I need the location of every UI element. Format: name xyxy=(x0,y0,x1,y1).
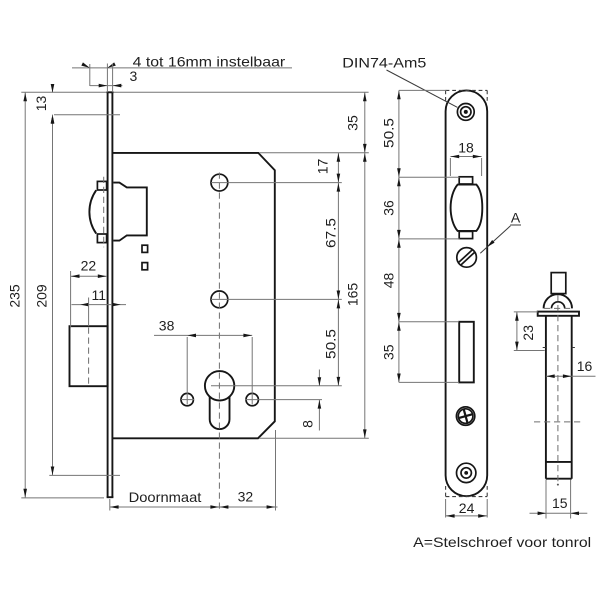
top screw xyxy=(457,104,474,121)
lower screw hole xyxy=(211,291,228,308)
svg-text:165: 165 xyxy=(344,283,360,307)
svg-text:23: 23 xyxy=(520,325,536,341)
ext case right xyxy=(275,430,277,511)
svg-text:3: 3 xyxy=(130,68,138,84)
plate ext lines xyxy=(399,89,447,91)
dim 15 xyxy=(545,480,547,519)
dim 22 xyxy=(71,275,107,277)
top edge line xyxy=(21,91,368,93)
svg-text:35: 35 xyxy=(344,115,360,131)
dim 209 xyxy=(52,115,54,476)
horizontal centerline dash-dot xyxy=(534,421,584,423)
flange xyxy=(538,312,579,316)
svg-text:A: A xyxy=(511,210,521,226)
roller oval xyxy=(451,185,483,231)
plate dim column x=398.9 xyxy=(398,90,400,382)
dim 16 xyxy=(546,375,596,377)
barrel bottom xyxy=(546,478,572,480)
cylinder center tick xyxy=(211,385,342,387)
roller tab top xyxy=(97,181,106,190)
faceplate strip bottom cap xyxy=(107,496,114,498)
deadbolt slot xyxy=(459,322,474,383)
roller hidden dashed line xyxy=(103,177,105,247)
screw dome xyxy=(544,294,572,308)
deadbolt xyxy=(70,326,108,386)
dim 13 xyxy=(52,84,54,92)
bottom screw xyxy=(457,463,476,482)
faceplate strip top cap xyxy=(107,91,114,93)
ext case bottom right xyxy=(259,437,369,439)
mount hole tick right / ext xyxy=(246,399,323,401)
leader A xyxy=(480,226,510,254)
ext plate bottom xyxy=(109,499,111,511)
vertical dashed centerline through holes/cylinder xyxy=(218,173,220,511)
ext line x=70.9 xyxy=(70,271,72,327)
dim column x=364.8 (35 / 165) xyxy=(364,92,366,438)
svg-text:38: 38 xyxy=(159,318,175,334)
svg-text:4 tot 16mm instelbaar: 4 tot 16mm instelbaar xyxy=(133,53,286,69)
svg-text:17: 17 xyxy=(314,159,330,175)
dome base dashed xyxy=(544,307,572,309)
ext line y=498 xyxy=(21,497,104,499)
svg-text:22: 22 xyxy=(81,258,97,274)
faceplate side strip back edge xyxy=(111,92,113,497)
dim 235 xyxy=(24,92,26,497)
hole tick upper xyxy=(211,182,342,184)
ext lines to mount holes xyxy=(186,337,188,405)
euro cylinder body xyxy=(210,397,230,430)
hole tick lower xyxy=(211,298,342,300)
leader DIN74 xyxy=(387,70,458,107)
ext line y=114.7 xyxy=(54,114,120,116)
svg-text:50.5: 50.5 xyxy=(381,118,397,148)
dim 4tot16 line xyxy=(72,67,292,69)
svg-text:36: 36 xyxy=(381,200,397,216)
small square hole lower xyxy=(142,263,148,270)
plate ext lines above xyxy=(106,64,108,93)
phillips screw xyxy=(456,407,474,425)
deadbolt dashed center xyxy=(88,328,90,386)
ext line x=88.6 xyxy=(88,298,90,327)
roller bulge arc xyxy=(89,190,96,233)
roller tab bottom xyxy=(97,234,106,243)
svg-text:13: 13 xyxy=(33,96,49,112)
svg-text:Doornmaat: Doornmaat xyxy=(129,489,202,505)
mount hole tick left xyxy=(181,399,194,401)
svg-text:8: 8 xyxy=(300,420,316,428)
ext case top right xyxy=(260,152,369,154)
dim column x=338.4 (17 / 67.5 / 50.5) xyxy=(337,153,339,386)
euro cylinder circle xyxy=(205,371,234,400)
dim 23 xyxy=(514,311,538,313)
svg-text:18: 18 xyxy=(458,140,474,156)
roller tab top (front) xyxy=(459,177,472,184)
svg-text:16: 16 xyxy=(577,358,593,374)
adjust screw A xyxy=(457,248,477,268)
dim 38 xyxy=(154,334,252,336)
faceplate side strip front edge xyxy=(107,92,109,497)
screw slot lines xyxy=(459,249,473,262)
dim 11 xyxy=(72,304,127,306)
svg-text:67.5: 67.5 xyxy=(322,218,338,248)
side ticks xyxy=(543,347,546,349)
upper screw hole xyxy=(211,174,228,191)
faceplate outline xyxy=(446,90,488,496)
svg-text:32: 32 xyxy=(238,489,254,505)
svg-text:50.5: 50.5 xyxy=(322,329,338,359)
dim 24 xyxy=(445,499,447,518)
small square hole upper xyxy=(142,245,148,252)
vertical centerline xyxy=(557,295,559,481)
svg-text:48: 48 xyxy=(381,273,397,289)
dashed square corners bottom xyxy=(446,496,488,498)
svg-text:235: 235 xyxy=(7,284,23,308)
cylinder mount hole left xyxy=(181,393,193,405)
svg-text:15: 15 xyxy=(552,495,568,511)
inner dome xyxy=(551,302,564,309)
svg-text:11: 11 xyxy=(92,287,107,303)
roller tab bottom (front) xyxy=(459,231,472,238)
ext line y=475.5 xyxy=(49,474,120,476)
barrel sides xyxy=(545,316,547,479)
svg-text:35: 35 xyxy=(381,344,397,360)
svg-text:DIN74-Am5: DIN74-Am5 xyxy=(342,54,426,70)
dashed square corners top xyxy=(446,89,488,91)
dim 18 xyxy=(449,158,451,176)
dim 4tot16 arrows xyxy=(81,62,90,69)
lock case outline xyxy=(112,153,274,438)
dim 3 arrows xyxy=(99,84,108,88)
dim 8 xyxy=(318,370,320,386)
svg-text:A=Stelschroef voor tonrol: A=Stelschroef voor tonrol xyxy=(413,534,591,550)
ext line x=89.8 xyxy=(89,64,91,86)
adjusting screw stem xyxy=(551,273,566,294)
cylinder mount hole right xyxy=(246,393,258,405)
dim 3 line xyxy=(90,85,122,87)
svg-text:24: 24 xyxy=(459,500,475,516)
dim Doornmaat / 32 xyxy=(110,506,278,508)
svg-text:209: 209 xyxy=(34,284,50,308)
latch head xyxy=(113,183,147,241)
barrel cap line xyxy=(546,461,572,463)
